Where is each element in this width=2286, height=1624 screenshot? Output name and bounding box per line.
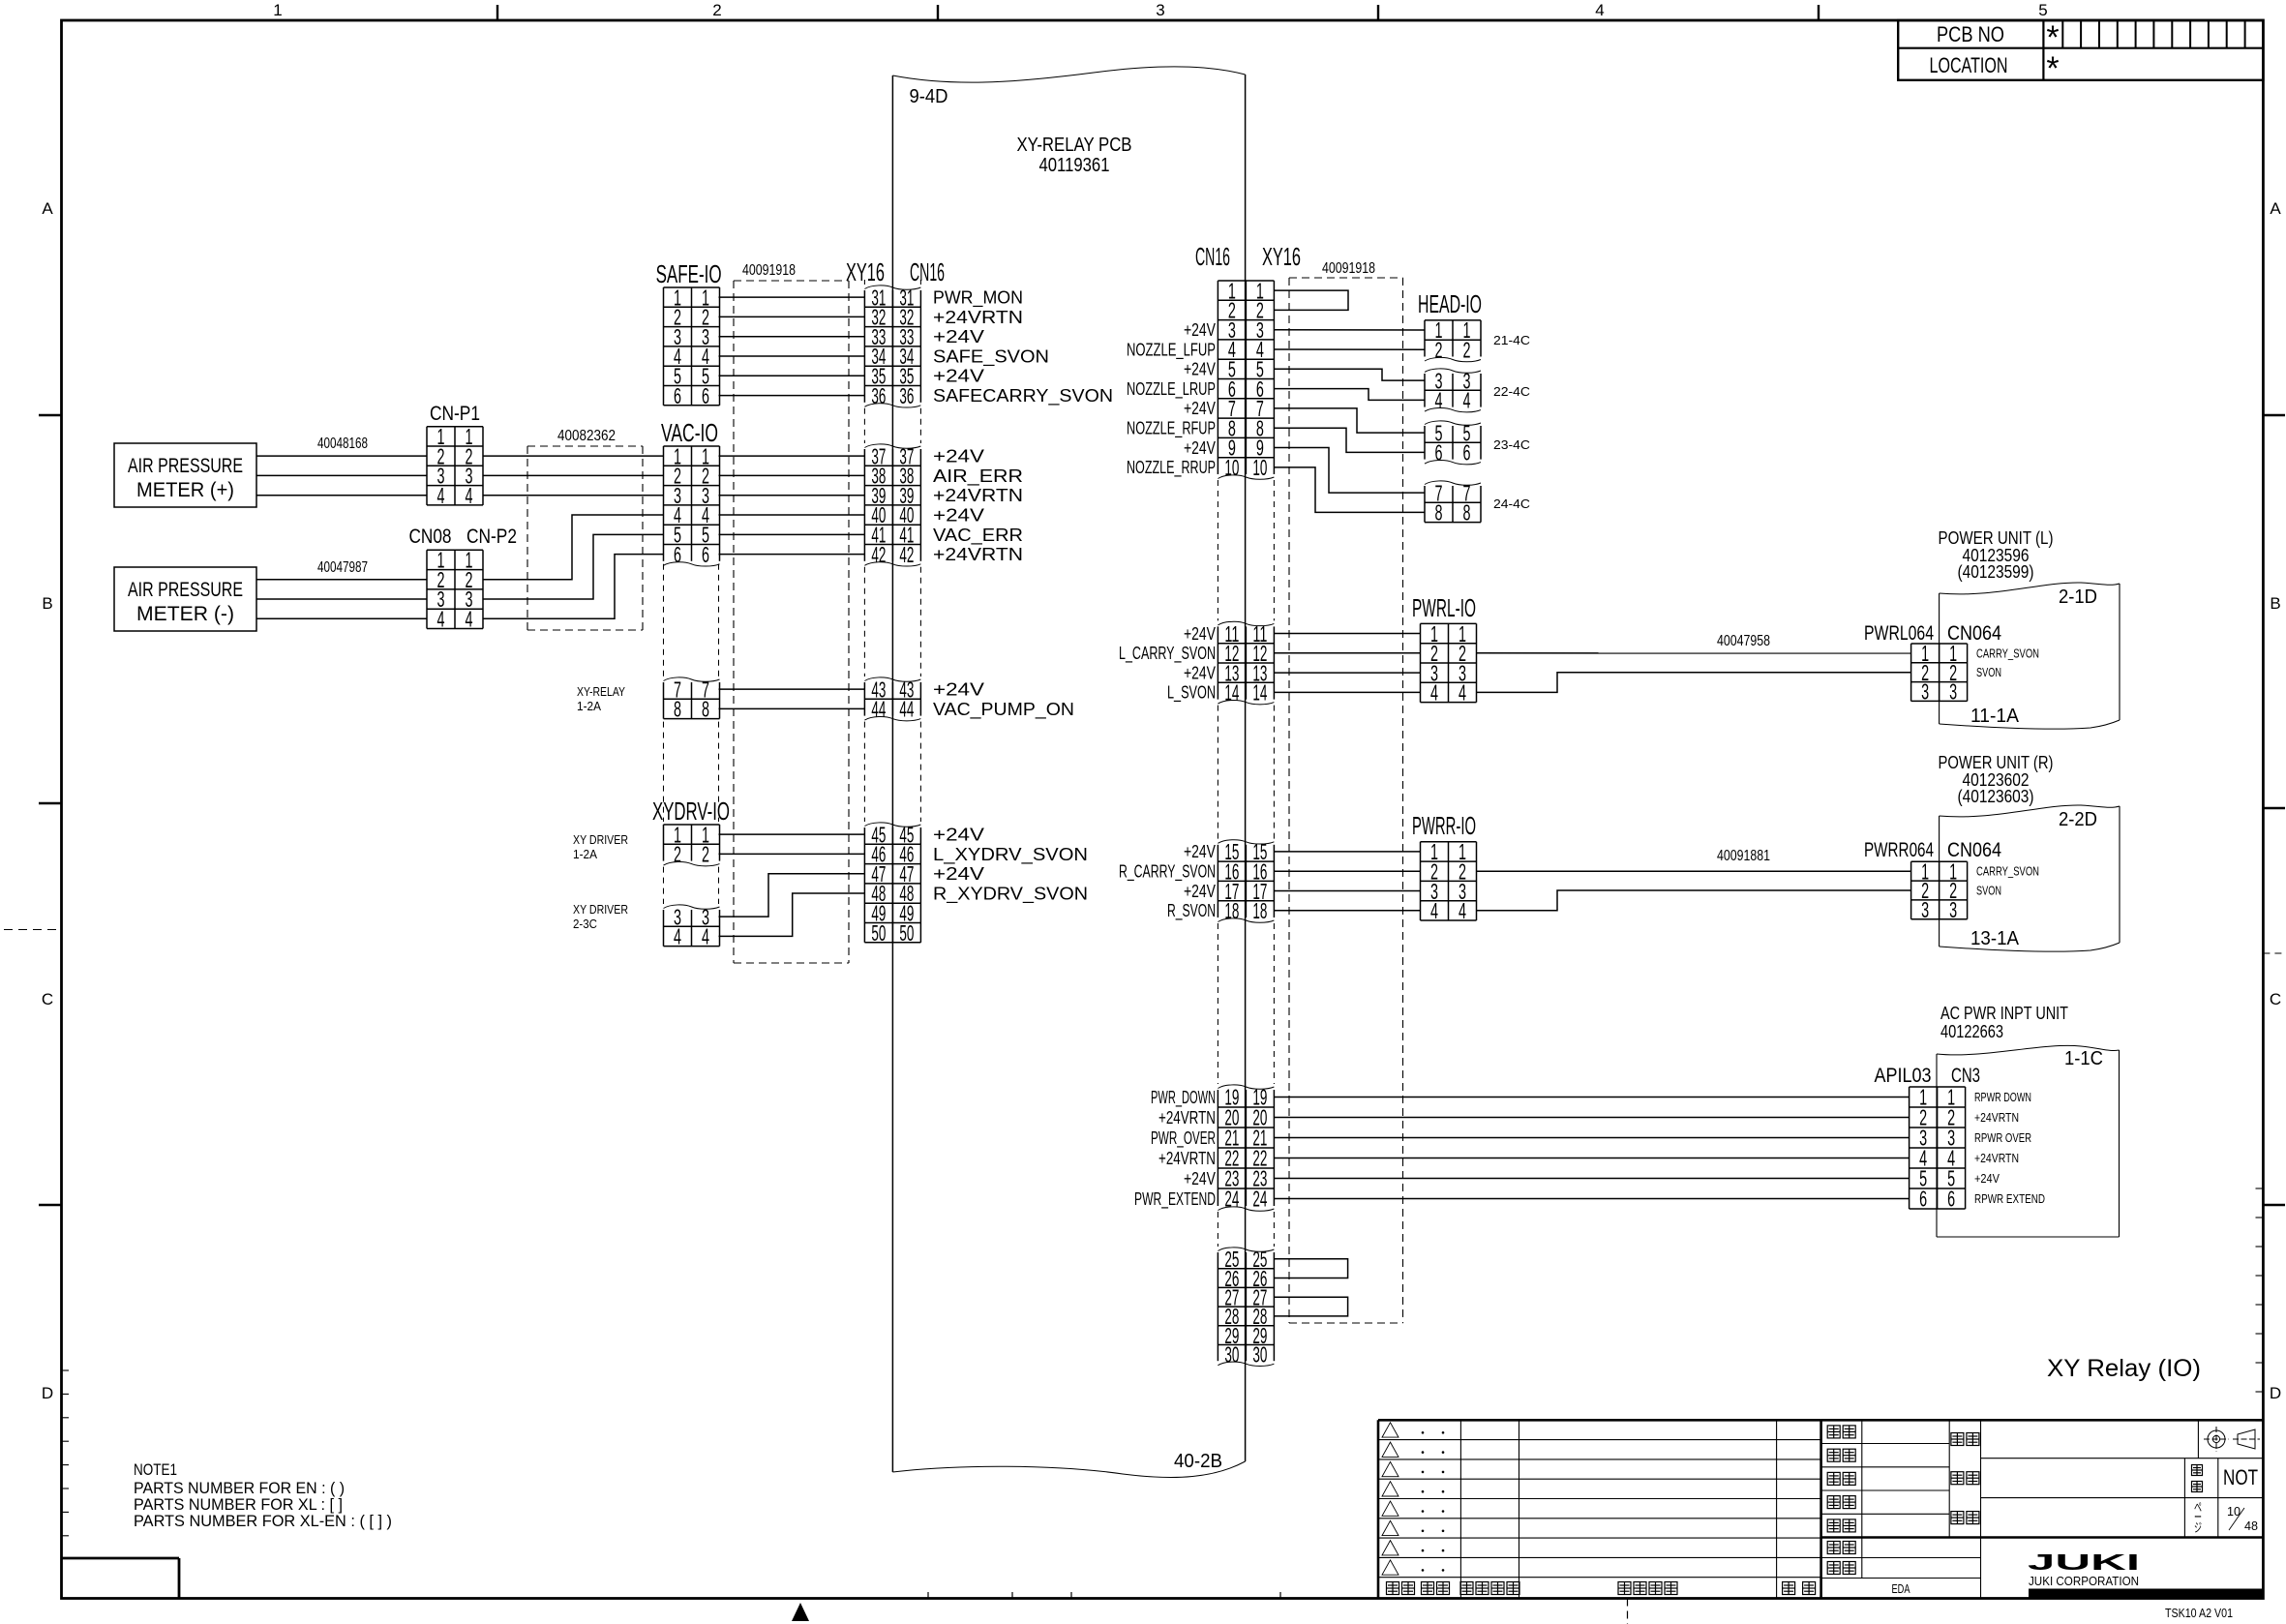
svg-text:+24V: +24V: [933, 326, 985, 346]
svg-text:42: 42: [871, 542, 886, 567]
svg-text:8: 8: [1435, 500, 1443, 526]
bottom center mark: [792, 1603, 809, 1621]
svg-text:XY-RELAY PCB: XY-RELAY PCB: [1017, 135, 1132, 156]
wire SAFE-IO.4 to CN16.34: [719, 355, 865, 357]
svg-text:+24V: +24V: [1184, 359, 1217, 379]
svg-text:PWR_EXTEND: PWR_EXTEND: [1134, 1188, 1216, 1210]
svg-text:(40123603): (40123603): [1958, 786, 2034, 806]
svg-text:2-3C: 2-3C: [573, 917, 597, 931]
wire SAFE-IO.5 to CN16.35: [719, 375, 865, 376]
revision triangle: [1382, 1520, 1399, 1535]
wire SAFE-IO.1 to CN16.31: [719, 296, 865, 298]
svg-text:+24VRTN: +24VRTN: [1974, 1110, 2019, 1125]
svg-text:5: 5: [2038, 1, 2047, 19]
wire XY16.27 loop XY16.28: [1274, 1297, 1347, 1316]
svg-text:PWR_DOWN: PWR_DOWN: [1151, 1087, 1216, 1108]
svg-text:A: A: [2270, 199, 2281, 218]
svg-text:XY-RELAY: XY-RELAY: [577, 684, 625, 699]
scale NOT cell: [2192, 1465, 2203, 1476]
svg-text:10: 10: [1224, 455, 1239, 480]
title block part rows: [1981, 1458, 2264, 1459]
svg-text:+24V: +24V: [1184, 437, 1217, 458]
connector CN16 pins 45-50: [863, 827, 865, 943]
svg-text:AIR PRESSURE: AIR PRESSURE: [128, 455, 243, 477]
svg-text:+24V: +24V: [933, 825, 985, 845]
wire XYDRV-IO.3 to CN16.47: [719, 874, 865, 917]
svg-text:CN16: CN16: [910, 257, 945, 286]
cable 40091918 right dashed box: [1289, 277, 1403, 279]
wire XY16.20 to APIL03.2: [1274, 1117, 1909, 1119]
svg-text:A: A: [42, 199, 53, 218]
wire VAC-IO.8 to CN16.44: [719, 707, 865, 709]
cable 40082362 dashed box: [527, 445, 643, 447]
svg-text:SAFE-IO: SAFE-IO: [656, 259, 722, 288]
svg-text:NOTE1: NOTE1: [134, 1460, 177, 1479]
svg-text:+24VRTN: +24VRTN: [933, 544, 1023, 564]
projection symbol: [2204, 1427, 2260, 1452]
revision dots: [1422, 1471, 1425, 1474]
wire AIR- to CN08.3: [256, 598, 427, 600]
svg-text:NOZZLE_LRUP: NOZZLE_LRUP: [1127, 378, 1216, 400]
svg-text:SVON: SVON: [1976, 884, 2001, 898]
revision dots: [1422, 1569, 1425, 1572]
svg-text:+24VRTN: +24VRTN: [933, 485, 1023, 505]
wire CN-P2.3 to VAC-IO.5: [483, 534, 664, 599]
svg-text:4: 4: [1435, 388, 1443, 413]
svg-text:4: 4: [1430, 898, 1438, 923]
svg-text:6: 6: [1947, 1187, 1955, 1212]
svg-text:+24V: +24V: [933, 679, 985, 700]
svg-text:44: 44: [871, 697, 886, 722]
svg-text:+24V: +24V: [933, 504, 985, 525]
svg-text:METER (+): METER (+): [136, 479, 234, 501]
connector XYDRV-IO pins 3-4: [663, 910, 665, 947]
svg-text:4: 4: [674, 924, 681, 949]
JUKI black bar: [2029, 1589, 2263, 1599]
svg-text:+24V: +24V: [933, 366, 985, 386]
wire XY16.14 to PWRL-IO.4: [1274, 691, 1420, 693]
svg-text:L_XYDRV_SVON: L_XYDRV_SVON: [933, 844, 1088, 865]
revision triangle: [1382, 1442, 1399, 1457]
wire XY16.22 to APIL03.4: [1274, 1158, 1909, 1159]
revision triangle: [1382, 1461, 1399, 1476]
svg-text:4: 4: [437, 483, 445, 508]
wire VAC-IO.5 to CN16.41: [719, 533, 865, 535]
svg-text:D: D: [42, 1384, 53, 1402]
svg-text:NOZZLE_LFUP: NOZZLE_LFUP: [1127, 339, 1216, 360]
svg-text:4: 4: [1595, 1, 1604, 19]
wire PWRL-IO.2 to PWRL064.1: [1477, 652, 1911, 654]
svg-text:42: 42: [899, 542, 914, 567]
svg-text:XY Relay (IO): XY Relay (IO): [2047, 1355, 2201, 1382]
revision dots: [1422, 1451, 1425, 1454]
svg-text:B: B: [2270, 594, 2280, 613]
revision dots: [1422, 1490, 1425, 1493]
svg-text:36: 36: [899, 383, 914, 408]
wire VAC-IO.1 to CN16.37: [719, 455, 865, 457]
connector VAC-IO pins 7-8: [663, 682, 665, 719]
svg-text:NOT: NOT: [2223, 1465, 2258, 1489]
svg-text:+24VRTN: +24VRTN: [933, 307, 1023, 327]
svg-text:1: 1: [273, 1, 282, 19]
svg-text:4: 4: [466, 607, 473, 632]
svg-text:R_SVON: R_SVON: [1167, 900, 1216, 921]
wire XY16.25 loop XY16.26: [1274, 1259, 1347, 1278]
svg-text:+24V: +24V: [1184, 662, 1217, 682]
revision dots: [1422, 1431, 1425, 1434]
svg-text:4: 4: [702, 924, 709, 949]
svg-text:+24V: +24V: [933, 446, 985, 466]
svg-text:XY DRIVER: XY DRIVER: [573, 832, 628, 847]
svg-text:PWR_MON: PWR_MON: [933, 287, 1023, 309]
svg-text:CN-P2: CN-P2: [466, 526, 517, 548]
svg-text:+24V: +24V: [1974, 1171, 2000, 1186]
wire XY16.7 to HEAD-IO.5: [1274, 408, 1425, 433]
svg-text:XY16: XY16: [846, 257, 885, 286]
svg-text:HEAD-IO: HEAD-IO: [1418, 289, 1482, 318]
revision dots: [1422, 1510, 1425, 1513]
svg-text:XY16: XY16: [1262, 242, 1301, 271]
svg-text:4: 4: [437, 607, 445, 632]
svg-text:AIR_ERR: AIR_ERR: [933, 466, 1023, 487]
svg-text:44: 44: [899, 697, 914, 722]
svg-text:1-2A: 1-2A: [577, 699, 601, 713]
svg-text:VAC_ERR: VAC_ERR: [933, 525, 1023, 546]
svg-text:2: 2: [712, 1, 721, 19]
zone row ticks right: [2263, 414, 2285, 416]
svg-text:6: 6: [1919, 1187, 1927, 1212]
svg-text:(40123599): (40123599): [1958, 561, 2034, 582]
svg-text:TSK10 A2 V01: TSK10 A2 V01: [2165, 1606, 2233, 1620]
svg-text:3: 3: [1921, 897, 1929, 922]
svg-text:8: 8: [702, 697, 709, 722]
wire SAFE-IO.3 to CN16.33: [719, 336, 865, 338]
svg-text:24-4C: 24-4C: [1493, 496, 1530, 511]
revision dots: [1422, 1530, 1425, 1533]
wire CN-P1.4 to VAC-IO.3: [483, 495, 664, 496]
wire XYDRV-IO.2 to CN16.46: [719, 853, 865, 855]
svg-text:D: D: [2270, 1384, 2281, 1402]
wire AIR- to CN08.4: [256, 617, 427, 619]
svg-text:PARTS NUMBER FOR XL-EN : ( [: PARTS NUMBER FOR XL-EN : ( [ ] ): [134, 1512, 392, 1530]
wire XYDRV-IO.4 to CN16.48: [719, 893, 865, 936]
svg-text:R_XYDRV_SVON: R_XYDRV_SVON: [933, 883, 1088, 904]
wire XY16.12 to PWRL-IO.2: [1274, 652, 1420, 654]
svg-text:50: 50: [899, 920, 914, 946]
connector CN16 pins 25-30: [1217, 1252, 1218, 1361]
wire XY16.11 to PWRL-IO.1: [1274, 633, 1420, 635]
wire XYDRV-IO.1 to CN16.45: [719, 833, 865, 835]
svg-text:CN08: CN08: [409, 526, 452, 548]
svg-text:11-1A: 11-1A: [1970, 706, 2019, 727]
svg-text:10: 10: [1252, 455, 1267, 480]
wire XY16.8 to HEAD-IO.6: [1274, 428, 1425, 452]
zone column ticks top: [496, 5, 498, 20]
wire XY16.23 to APIL03.5: [1274, 1178, 1909, 1180]
revision dots: [1422, 1549, 1425, 1552]
svg-text:RPWR EXTEND: RPWR EXTEND: [1974, 1191, 2045, 1206]
wire XY16.5 to HEAD-IO.3: [1274, 369, 1425, 380]
svg-text:+24V: +24V: [1184, 623, 1217, 644]
svg-text:RPWR OVER: RPWR OVER: [1974, 1130, 2031, 1145]
svg-text:PWRR-IO: PWRR-IO: [1412, 811, 1476, 840]
svg-text:2-1D: 2-1D: [2059, 586, 2097, 608]
svg-text:2: 2: [1435, 338, 1443, 363]
zone row ticks left: [39, 414, 62, 416]
wire XY16.16 to PWRR-IO.2: [1274, 870, 1420, 872]
title block approval table: [1821, 1419, 2264, 1422]
svg-text:SVON: SVON: [1976, 665, 2001, 679]
bottom border ruler ticks: [927, 1592, 929, 1599]
svg-text:40122663: 40122663: [1940, 1021, 2003, 1041]
svg-text:4: 4: [1430, 680, 1438, 706]
wire VAC-IO.4 to CN16.40: [719, 514, 865, 516]
cable 40091918 left dashed box: [734, 280, 849, 282]
revision triangle: [1382, 1501, 1399, 1516]
wire PWRL-IO.4 to PWRL064.2: [1477, 673, 1911, 693]
bottom left box: [62, 1557, 180, 1560]
revision triangle: [1382, 1541, 1399, 1555]
wire CN-P1.2 to VAC-IO.1: [483, 455, 664, 457]
svg-text:*: *: [2046, 50, 2059, 87]
svg-text:40091918: 40091918: [1322, 260, 1375, 277]
svg-text:CARRY_SVON: CARRY_SVON: [1976, 646, 2039, 660]
svg-text:13-1A: 13-1A: [1970, 928, 2019, 949]
connector CN16 pins 37-42: [863, 449, 865, 561]
svg-text:R_CARRY_SVON: R_CARRY_SVON: [1119, 861, 1216, 883]
connector CN16 pins 11-14: [1217, 626, 1218, 699]
svg-text:EDA: EDA: [1892, 1581, 1910, 1596]
revision triangle: [1382, 1560, 1399, 1575]
svg-text:CN3: CN3: [1951, 1065, 1980, 1087]
wire XY16.3 to HEAD-IO.1: [1274, 329, 1425, 331]
svg-text:PWR_OVER: PWR_OVER: [1151, 1128, 1216, 1149]
wire AIR+ to CN-P1.2: [256, 455, 427, 457]
svg-text:RPWR DOWN: RPWR DOWN: [1974, 1090, 2031, 1104]
wire CN-P2.2 to VAC-IO.4: [483, 515, 664, 580]
wire CN-P1.3 to VAC-IO.2: [483, 474, 664, 476]
svg-text:+24VRTN: +24VRTN: [1158, 1148, 1216, 1168]
svg-text:4: 4: [1463, 388, 1471, 413]
svg-text:6: 6: [1435, 440, 1443, 466]
revision header labels: [1387, 1582, 1399, 1595]
fold mark right: [2263, 952, 2285, 954]
svg-text:+24VRTN: +24VRTN: [1158, 1107, 1216, 1128]
connector CN16 pins 43-44: [863, 682, 865, 716]
cable dashed column segments right: [1217, 480, 1218, 620]
svg-text:6: 6: [674, 542, 681, 567]
wire XY16.17 to PWRR-IO.3: [1274, 890, 1420, 892]
wire VAC-IO.7 to CN16.43: [719, 688, 865, 690]
svg-text:40091881: 40091881: [1717, 848, 1770, 864]
wire AIR+ to CN-P1.3: [256, 474, 427, 476]
svg-text:3: 3: [1156, 1, 1164, 19]
svg-text:3: 3: [1949, 897, 1957, 922]
svg-text:48: 48: [2244, 1519, 2258, 1533]
svg-text:L_CARRY_SVON: L_CARRY_SVON: [1119, 643, 1216, 664]
svg-text:CN-P1: CN-P1: [430, 403, 480, 425]
svg-text:4: 4: [1459, 898, 1466, 923]
svg-text:36: 36: [871, 383, 886, 408]
svg-text:+24V: +24V: [1184, 1168, 1217, 1188]
wire XY16.15 to PWRR-IO.1: [1274, 851, 1420, 853]
wire XY16.6 to HEAD-IO.4: [1274, 389, 1425, 401]
svg-text:+24V: +24V: [1184, 319, 1217, 340]
svg-text:METER (-): METER (-): [136, 603, 234, 625]
wire XY16.9 to HEAD-IO.7: [1274, 448, 1425, 494]
svg-text:CN16: CN16: [1195, 242, 1230, 271]
svg-text:40048168: 40048168: [317, 436, 368, 452]
svg-text:1-2A: 1-2A: [573, 847, 597, 861]
svg-text:PWRL-IO: PWRL-IO: [1412, 593, 1476, 622]
connector CN16 pins 19-24: [1217, 1090, 1218, 1206]
svg-text:22-4C: 22-4C: [1493, 384, 1530, 399]
svg-text:2: 2: [674, 842, 681, 867]
svg-text:6: 6: [674, 383, 681, 408]
svg-text:40047958: 40047958: [1717, 633, 1770, 649]
svg-text:2: 2: [702, 842, 709, 867]
svg-text:6: 6: [702, 383, 709, 408]
wire XY16.18 to PWRR-IO.4: [1274, 910, 1420, 912]
XY-RELAY PCB U1 outline: [891, 75, 893, 1472]
svg-text:SAFE_SVON: SAFE_SVON: [933, 346, 1049, 367]
wire AIR- to CN08.2: [256, 579, 427, 581]
svg-text:8: 8: [674, 697, 681, 722]
ruler ticks right border: [2256, 1188, 2264, 1189]
svg-text:SAFECARRY_SVON: SAFECARRY_SVON: [933, 385, 1113, 406]
wire VAC-IO.3 to CN16.39: [719, 495, 865, 496]
wire VAC-IO.2 to CN16.38: [719, 474, 865, 476]
svg-text:VAC-IO: VAC-IO: [661, 418, 718, 447]
svg-text:AC PWR INPT UNIT: AC PWR INPT UNIT: [1940, 1003, 2068, 1023]
svg-text:3: 3: [1921, 679, 1929, 705]
svg-text:6: 6: [1463, 440, 1471, 466]
wire PWRR-IO.2 to PWRR064.1: [1477, 870, 1911, 872]
cable dashed column segments left: [663, 564, 665, 677]
svg-text:24: 24: [1224, 1187, 1239, 1212]
labels approval column: [1827, 1426, 1840, 1438]
bottom fold dashed line: [1627, 1599, 1629, 1624]
svg-text:23-4C: 23-4C: [1493, 437, 1530, 452]
wire CN-P2.4 to VAC-IO.6: [483, 555, 664, 619]
svg-text:40-2B: 40-2B: [1174, 1451, 1222, 1472]
svg-text:18: 18: [1224, 898, 1239, 923]
fold mark left: [4, 929, 62, 931]
ruler ticks left border: [62, 1369, 70, 1371]
svg-text:AIR PRESSURE: AIR PRESSURE: [128, 579, 243, 601]
svg-text:B: B: [42, 594, 52, 613]
svg-text:JUKI: JUKI: [2028, 1549, 2140, 1575]
svg-text:30: 30: [1224, 1342, 1239, 1368]
svg-text:40091918: 40091918: [742, 262, 796, 279]
revision triangle: [1382, 1423, 1399, 1437]
svg-text:APIL03: APIL03: [1875, 1065, 1932, 1087]
svg-text:4: 4: [1459, 680, 1466, 706]
svg-text:2-2D: 2-2D: [2059, 809, 2097, 830]
svg-text:NOZZLE_RRUP: NOZZLE_RRUP: [1127, 457, 1216, 478]
component AIR PRESSURE METER (-): [114, 567, 256, 631]
wire XY16.19 to APIL03.1: [1274, 1097, 1909, 1098]
svg-text:2: 2: [1463, 338, 1471, 363]
svg-text:+24V: +24V: [1184, 841, 1217, 861]
svg-text:+24V: +24V: [1184, 881, 1217, 901]
svg-text:8: 8: [1463, 500, 1471, 526]
wire PWRR-IO.4 to PWRR064.2: [1477, 890, 1911, 911]
svg-text:+24VRTN: +24VRTN: [1974, 1151, 2019, 1165]
svg-text:4: 4: [466, 483, 473, 508]
wire AIR+ to CN-P1.4: [256, 495, 427, 496]
wire SAFE-IO.2 to CN16.32: [719, 316, 865, 317]
component AIR PRESSURE METER (+): [114, 443, 256, 507]
svg-text:+24V: +24V: [933, 863, 985, 884]
svg-text:1-1C: 1-1C: [2064, 1048, 2103, 1069]
connector CN16 pins 1-10: [1217, 281, 1218, 474]
wire XY16.4 to HEAD-IO.2: [1274, 348, 1425, 350]
table PCB NO / LOCATION: [1898, 20, 2263, 80]
svg-text:CARRY_SVON: CARRY_SVON: [1976, 864, 2039, 879]
svg-text:30: 30: [1252, 1342, 1267, 1368]
svg-text:21-4C: 21-4C: [1493, 333, 1530, 347]
svg-text:+24V: +24V: [1184, 398, 1217, 418]
wire SAFE-IO.6 to CN16.36: [719, 395, 865, 397]
svg-text:24: 24: [1252, 1187, 1267, 1212]
svg-text:14: 14: [1224, 680, 1239, 706]
revision triangle: [1382, 1482, 1399, 1496]
svg-text:14: 14: [1252, 680, 1267, 706]
svg-text:JUKI CORPORATION: JUKI CORPORATION: [2029, 1575, 2139, 1588]
connector CN16 pins 15-18: [1217, 845, 1218, 917]
wire XY16.24 to APIL03.6: [1274, 1198, 1909, 1200]
svg-text:L_SVON: L_SVON: [1167, 682, 1216, 704]
svg-text:XY DRIVER: XY DRIVER: [573, 902, 628, 917]
svg-text:18: 18: [1252, 898, 1267, 923]
svg-text:6: 6: [702, 542, 709, 567]
svg-text:40047987: 40047987: [317, 559, 368, 576]
svg-text:C: C: [42, 990, 53, 1008]
svg-text:50: 50: [871, 920, 886, 946]
title block revision table: [1378, 1419, 1821, 1422]
svg-text:PCB NO: PCB NO: [1937, 22, 2004, 46]
svg-text:9-4D: 9-4D: [910, 86, 948, 107]
wire XY16.13 to PWRL-IO.3: [1274, 672, 1420, 674]
wire VAC-IO.6 to CN16.42: [719, 554, 865, 556]
svg-text:NOZZLE_RFUP: NOZZLE_RFUP: [1127, 418, 1216, 439]
wire XY16.21 to APIL03.3: [1274, 1137, 1909, 1139]
svg-text:40119361: 40119361: [1039, 155, 1110, 176]
wire XY16.1 loop XY16.2: [1274, 290, 1348, 310]
wire XY16.10 to HEAD-IO.8: [1274, 467, 1425, 513]
connector CN16 pins 31-36: [863, 290, 865, 403]
svg-text:ジ: ジ: [2194, 1520, 2202, 1535]
svg-text:VAC_PUMP_ON: VAC_PUMP_ON: [933, 699, 1074, 720]
svg-text:3: 3: [1949, 679, 1957, 705]
svg-text:40082362: 40082362: [557, 428, 616, 444]
svg-text:C: C: [2270, 990, 2281, 1008]
svg-text:LOCATION: LOCATION: [1930, 53, 2008, 77]
